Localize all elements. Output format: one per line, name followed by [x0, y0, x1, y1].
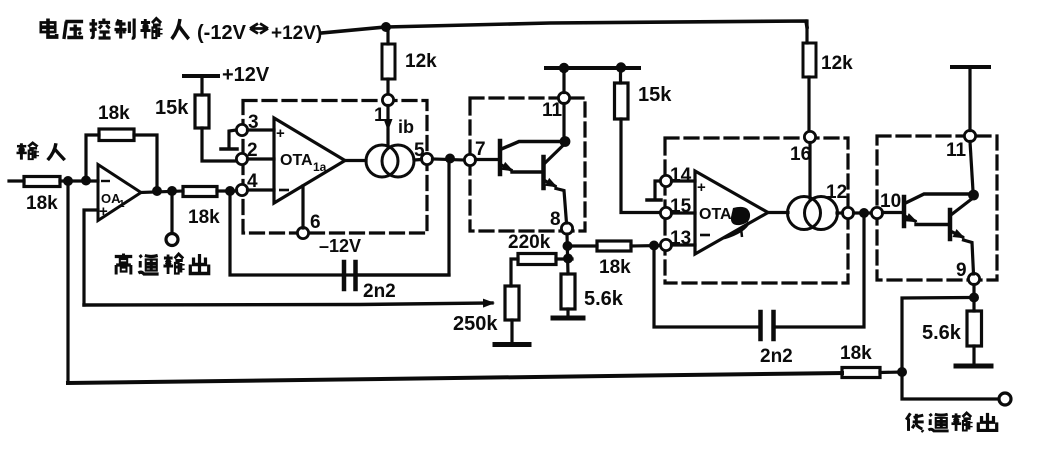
svg-text:3: 3: [248, 112, 259, 133]
svg-text:9: 9: [956, 260, 967, 281]
svg-text:7: 7: [475, 139, 486, 160]
svg-text:1: 1: [119, 199, 125, 210]
svg-text:OTA: OTA: [699, 206, 732, 223]
svg-text:ib: ib: [398, 117, 414, 137]
svg-text:+: +: [99, 203, 108, 220]
svg-text:12k: 12k: [821, 53, 853, 74]
svg-text:1a: 1a: [313, 160, 327, 174]
svg-text:5.6k: 5.6k: [922, 322, 962, 344]
svg-text:15k: 15k: [638, 84, 672, 106]
svg-text:(-12V: (-12V: [197, 22, 247, 44]
svg-text:2n2: 2n2: [363, 281, 396, 302]
svg-text:1: 1: [374, 105, 385, 126]
svg-text:12: 12: [826, 182, 847, 203]
svg-text:15: 15: [670, 196, 692, 217]
svg-text:13: 13: [670, 228, 691, 249]
svg-text:4: 4: [247, 171, 258, 192]
svg-text:+12V): +12V): [271, 23, 322, 44]
svg-text:+: +: [697, 179, 706, 196]
svg-text:14: 14: [670, 165, 692, 186]
svg-text:6: 6: [310, 212, 321, 233]
svg-text:18k: 18k: [188, 207, 220, 228]
svg-text:11: 11: [542, 100, 563, 121]
svg-text:15k: 15k: [155, 97, 189, 119]
svg-text:2: 2: [247, 140, 258, 161]
svg-text:–12V: –12V: [319, 236, 361, 256]
svg-text:+: +: [276, 125, 285, 142]
svg-text:10: 10: [880, 191, 901, 212]
svg-text:18k: 18k: [26, 193, 58, 214]
svg-text:+12V: +12V: [222, 64, 270, 86]
svg-text:18k: 18k: [840, 343, 872, 364]
svg-text:12k: 12k: [405, 51, 437, 72]
svg-text:8: 8: [550, 209, 561, 230]
svg-text:18k: 18k: [98, 103, 130, 124]
svg-text:18k: 18k: [599, 257, 631, 278]
svg-text:16: 16: [790, 144, 811, 165]
svg-text:OTA: OTA: [280, 152, 313, 169]
svg-text:5: 5: [414, 140, 425, 161]
svg-text:250k: 250k: [453, 313, 498, 335]
svg-text:11: 11: [946, 140, 967, 161]
svg-text:5.6k: 5.6k: [584, 288, 624, 310]
svg-text:220k: 220k: [508, 232, 551, 253]
svg-text:2n2: 2n2: [760, 346, 793, 367]
